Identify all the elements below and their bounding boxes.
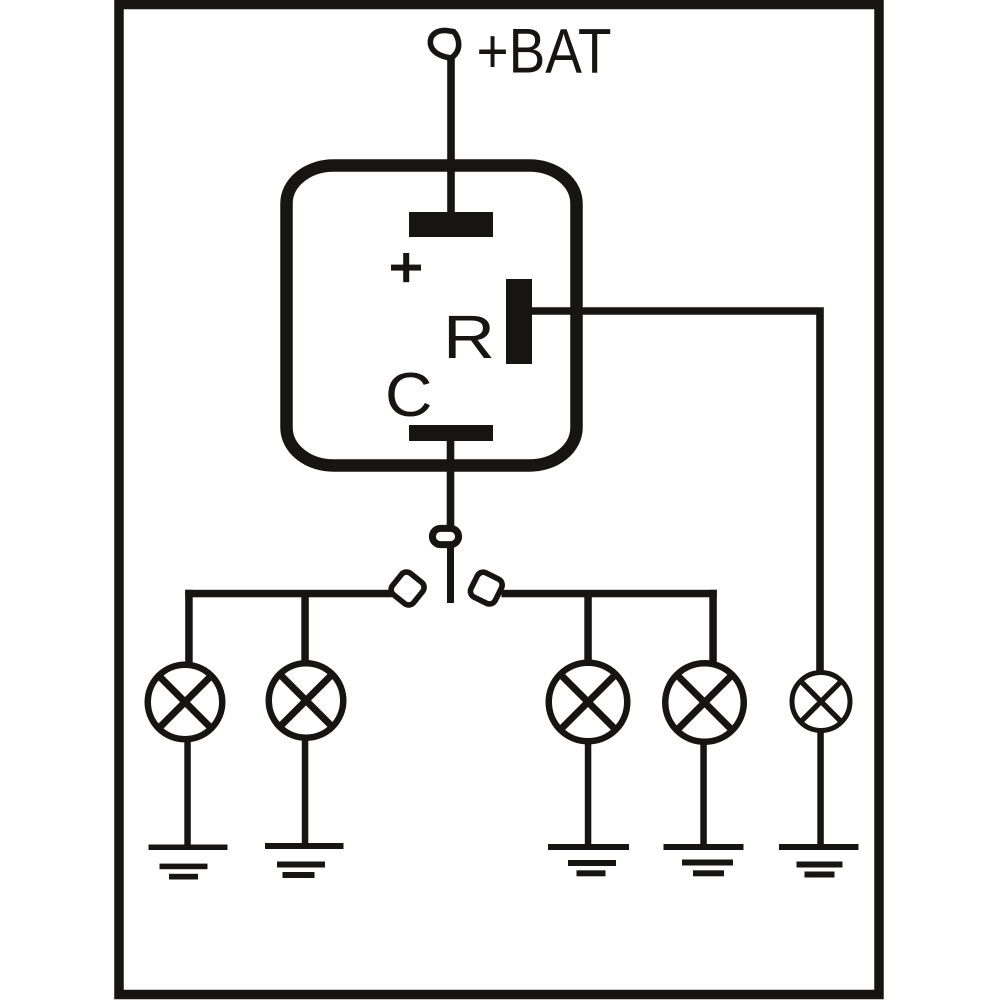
terminal R plate (506, 279, 532, 364)
lamp L1 (148, 665, 223, 740)
terminal plate C (409, 425, 493, 441)
wire left branch (185, 590, 392, 598)
wire R to pilot lamp (532, 311, 820, 672)
flasher relay body (287, 166, 577, 466)
wire right branch (502, 590, 717, 598)
label plus (391, 265, 421, 271)
wire battery feed (447, 54, 455, 216)
wire lamp2 drop (301, 593, 309, 663)
wire L2 to ground (302, 736, 309, 846)
lamp L2 (269, 663, 344, 738)
wire L3 to ground (585, 741, 592, 847)
connector socket oval (432, 528, 458, 544)
wire L5 to ground (817, 729, 824, 847)
lamp L3 (549, 663, 628, 742)
connector +BAT spade (430, 30, 458, 58)
svg-text:R: R (443, 303, 495, 372)
ground G1 (149, 845, 228, 880)
wire lamp1 drop (185, 590, 193, 664)
wire C output (447, 441, 455, 528)
wire socket stub (447, 545, 454, 603)
ground G4 (664, 844, 744, 876)
ground G2 (265, 843, 344, 878)
wire lamp4 drop (709, 590, 717, 663)
lamp L4 (665, 663, 744, 742)
ground G5 (779, 844, 859, 878)
connector right spade (468, 570, 504, 606)
wire L1 to ground (184, 738, 191, 847)
wire L4 to ground (700, 741, 707, 847)
svg-text:C: C (385, 360, 433, 430)
terminal plate battery (409, 212, 493, 237)
ground G3 (548, 844, 629, 876)
wire lamp3 drop (584, 593, 592, 662)
svg-text:+BAT: +BAT (477, 17, 612, 87)
lamp L5 (792, 673, 850, 731)
connector left spade (388, 569, 426, 607)
